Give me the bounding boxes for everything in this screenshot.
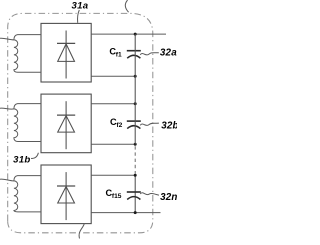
diode D1 cathode bar xyxy=(57,42,75,44)
node dot block1 top xyxy=(134,33,137,36)
wire: coil1 top to box xyxy=(18,34,42,36)
diode D2 triangle xyxy=(58,116,75,133)
node dot block2 top xyxy=(134,102,137,105)
capacitor Cf2 top plate xyxy=(127,120,141,122)
diode D3 cathode bar xyxy=(57,185,75,187)
svg-text:31a: 31a xyxy=(72,1,89,12)
svg-text:f1: f1 xyxy=(116,52,122,59)
wire: box3 bottom output to DC- lead xyxy=(91,212,160,214)
leader squiggle to 32a xyxy=(140,53,159,55)
wire: coil1 bottom to box xyxy=(18,71,42,73)
diode D1 triangle xyxy=(58,44,75,62)
wire: box2 top output xyxy=(91,103,135,105)
svg-text:31b: 31b xyxy=(13,155,30,166)
capacitor Cf1 curved plate xyxy=(127,55,140,58)
wire: coil2 top to box xyxy=(18,103,42,105)
leader squiggle to 32b xyxy=(140,123,159,125)
rectifier box (15th) xyxy=(41,165,91,224)
leader line from 31b to box2 corner xyxy=(31,153,38,159)
svg-text:f15: f15 xyxy=(112,193,122,200)
diode D1 wire xyxy=(65,31,67,79)
wire: coil3 bottom to box xyxy=(18,211,42,213)
node dot block3 top xyxy=(134,174,137,177)
input wire 2 xyxy=(0,108,14,109)
unit boundary (dash-dot rounded rectangle) xyxy=(8,13,153,232)
svg-text:f2: f2 xyxy=(116,122,122,129)
diode D2 wire xyxy=(65,101,67,149)
leader squiggle to 32n xyxy=(140,193,159,195)
inductor L1 xyxy=(14,35,18,73)
diode D3 wire xyxy=(65,172,67,220)
wire: box1 top output to DC+ lead xyxy=(91,33,166,35)
wire: box3 top output xyxy=(91,174,135,176)
svg-text:32a: 32a xyxy=(160,48,177,59)
rectifier box 31a xyxy=(41,23,91,82)
capacitor Cf2 curved plate xyxy=(127,126,140,129)
diode D3 triangle xyxy=(58,187,75,204)
node dot block2 bottom xyxy=(134,143,137,146)
wire: box2 bottom output xyxy=(91,143,135,145)
input wire 3 xyxy=(0,179,14,181)
capacitor Cf15 curved plate xyxy=(127,197,140,200)
node dot block1 bottom xyxy=(134,75,137,78)
wire: coil2 bottom to box xyxy=(18,141,42,143)
rectifier box 31b xyxy=(41,94,91,153)
node dot block3 bottom xyxy=(134,211,137,214)
wire: coil3 top to box xyxy=(18,175,42,177)
inductor L2 xyxy=(14,104,18,142)
svg-text:32b: 32b xyxy=(161,121,177,132)
inductor L3 xyxy=(14,176,18,212)
input wire 1 xyxy=(0,38,14,40)
leader line at top boundary corner xyxy=(125,0,128,12)
diode D2 cathode bar xyxy=(57,114,75,116)
leader line from 31a to rectifier box xyxy=(78,10,80,23)
DC bus solid segment lower xyxy=(134,175,136,212)
capacitor Cf1 top plate xyxy=(127,50,141,52)
wire: box1 bottom output xyxy=(91,75,135,77)
capacitor Cf15 top plate xyxy=(127,191,141,193)
DC bus solid segment upper xyxy=(134,34,136,144)
DC bus dashed segment (omitted blocks) xyxy=(134,146,136,174)
svg-text:32n: 32n xyxy=(160,192,177,203)
leader line crossing bottom boundary xyxy=(79,224,84,239)
